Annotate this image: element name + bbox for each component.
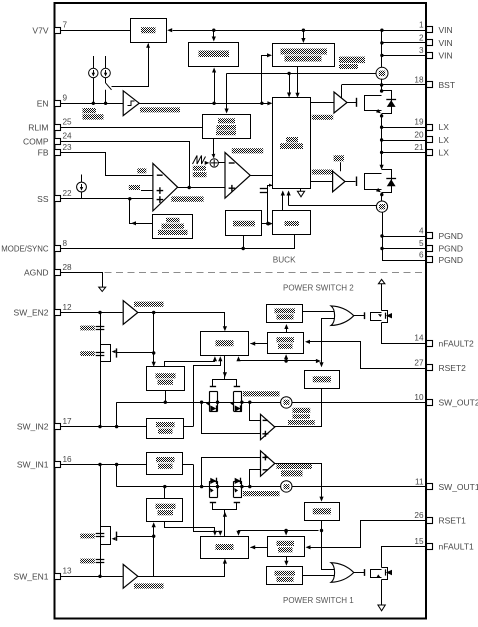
- gate drive branch 1: [213, 503, 237, 510]
- wire comparator minus tap 1: [250, 470, 261, 487]
- svg-text:5: 5: [419, 239, 424, 248]
- svg-text:PGND: PGND: [439, 244, 464, 254]
- op-amp PWM comparator: [225, 153, 250, 199]
- fault FET gate bar: [364, 312, 366, 319]
- ground AGND symbol: [99, 287, 106, 291]
- wire VIN pin2: [382, 42, 426, 44]
- pin 3 VIN (right): [427, 53, 433, 59]
- HS FET body diode: [386, 99, 396, 101]
- transistor fault pull FET body: [382, 568, 388, 580]
- wire PGND pin5: [382, 248, 426, 250]
- svg-text:SW_OUT2: SW_OUT2: [439, 397, 478, 407]
- node VIN rail / VIN bus: [380, 29, 383, 32]
- label 0.8V reference text: [129, 185, 140, 190]
- block box 1e fault comparator: [267, 567, 303, 585]
- block box 2f sense latch: [305, 371, 340, 389]
- node SW_EN1 clamp tap: [98, 575, 101, 578]
- label sense text below rail 1: [243, 491, 280, 496]
- svg-text:AGND: AGND: [24, 267, 49, 277]
- wire rail leg to SW_IN2: [116, 402, 118, 426]
- op-amp HS gate driver: [334, 92, 347, 113]
- node clamp gate junction 1: [152, 535, 155, 538]
- svg-text:2: 2: [419, 33, 424, 42]
- block box 2g input filter: [147, 419, 184, 439]
- svg-text:12: 12: [63, 303, 73, 312]
- node LX connection: [380, 114, 383, 117]
- svg-text:RSET2: RSET2: [439, 363, 467, 373]
- wire reference to error amp + input: [141, 190, 153, 192]
- transistor fault pull FET body: [382, 311, 388, 323]
- svg-text:19: 19: [414, 118, 424, 127]
- label EN comparator output text: [140, 107, 180, 112]
- op-amp PS2 comparator: [261, 414, 275, 439]
- wire V7V pin to LDO: [61, 30, 130, 32]
- op-amp error amplifier: [153, 163, 178, 211]
- wire BST drop to HS driver: [341, 85, 343, 98]
- wire box1e to OR input 1: [303, 575, 334, 577]
- node EN to box3: [260, 102, 263, 105]
- block box B (mode detect): [226, 211, 262, 236]
- block box 1b current limit ref: [268, 537, 305, 557]
- block box 1f sense latch: [305, 503, 340, 521]
- wire LX pin19: [382, 127, 427, 129]
- svg-text:RLIM: RLIM: [28, 122, 48, 132]
- wire common bus 3' (fault feed 1): [239, 531, 319, 534]
- svg-text:POWER SWITCH 1: POWER SWITCH 1: [283, 596, 354, 605]
- current sense circle 1: [281, 481, 292, 492]
- wire MODE/SYNC to boxC: [61, 235, 295, 249]
- ground at logic block: [300, 188, 302, 191]
- wire SS source to SS line: [81, 192, 83, 199]
- pin 13 SW_EN1 (left): [55, 574, 61, 580]
- comp cap ticks: [260, 188, 267, 190]
- wire LX pin20: [382, 140, 427, 142]
- svg-text:16: 16: [63, 455, 73, 464]
- wire level shift output to box1a 1: [165, 522, 215, 534]
- label clamp text lower: [80, 351, 95, 356]
- wire OR output to gate: [354, 315, 365, 317]
- svg-text:PGND: PGND: [439, 231, 464, 241]
- pin 28 AGND (left): [55, 270, 61, 276]
- wire PGND pin4: [382, 236, 426, 238]
- node supply to logic: [287, 72, 290, 75]
- svg-text:nFAULT1: nFAULT1: [439, 542, 475, 552]
- wire logic to comp cap node: [268, 186, 273, 224]
- wire RLIM to oscillator: [61, 127, 202, 129]
- transistor output FET 2A: [209, 391, 211, 411]
- svg-text:SW_IN1: SW_IN1: [17, 460, 49, 470]
- pin 17 SW_IN2 (left): [55, 424, 61, 430]
- summing node circle: [210, 159, 218, 167]
- wire COMP to error-amp output: [61, 142, 190, 188]
- FET gate bars 1: [210, 502, 216, 504]
- svg-text:LX: LX: [439, 135, 450, 145]
- svg-text:4: 4: [419, 226, 424, 235]
- wire EN comparator output: [139, 103, 269, 105]
- LS FET gate bar: [356, 177, 358, 187]
- wire box2b to box2e: [286, 327, 288, 333]
- wire switch to EN line: [105, 90, 107, 104]
- label clamp1 text lower: [80, 559, 95, 564]
- wire EN up into box2: [214, 72, 216, 104]
- wire box2e to OR input: [303, 311, 334, 313]
- wire box1c to rail 1: [164, 487, 166, 498]
- wire nFAULT1: [382, 547, 427, 568]
- node SW_EN2 clamp tap: [98, 311, 101, 314]
- wire buffer1 output to control: [138, 562, 225, 577]
- wire supply down into logic block: [289, 73, 291, 93]
- svg-text:1: 1: [419, 21, 424, 30]
- svg-text:POWER SWITCH 2: POWER SWITCH 2: [283, 284, 354, 293]
- svg-text:17: 17: [63, 417, 73, 426]
- svg-text:SS: SS: [37, 194, 49, 204]
- wire SW_IN1 down to box1a: [194, 465, 221, 534]
- label PWM comparator text: [232, 148, 263, 153]
- block box 2c level shift: [147, 367, 185, 391]
- wire SW_OUT2 rail: [117, 402, 282, 404]
- SS current source stub: [81, 175, 83, 183]
- wire VIN pin3: [382, 55, 426, 57]
- wire PGND pin6: [382, 260, 426, 262]
- node SW_IN2 taps: [98, 425, 101, 428]
- block LDO regulator: [131, 19, 167, 43]
- wire deadtime stub: [340, 162, 342, 171]
- pin 11 SW_OUT1 (right): [427, 484, 433, 490]
- label sense text above rail: [243, 391, 280, 396]
- wire circle to HS FET drain: [381, 79, 383, 91]
- OR gate 1: [331, 563, 354, 583]
- wire clamp gate: [117, 352, 154, 354]
- svg-text:FB: FB: [38, 148, 49, 158]
- label SW_EN2 buffer text: [134, 302, 164, 307]
- node EN to box2: [212, 102, 215, 105]
- wire comparator plus tap 1: [202, 458, 261, 487]
- svg-text:27: 27: [414, 359, 424, 368]
- block box 1c level shift: [147, 499, 183, 522]
- svg-text:11: 11: [415, 477, 424, 486]
- node SS / softstart tap: [128, 197, 131, 200]
- svg-text:23: 23: [63, 143, 73, 152]
- pin 20 LX (right): [427, 137, 433, 143]
- transistor output FET 1A: [209, 481, 211, 497]
- svg-text:26: 26: [414, 511, 424, 520]
- pin 15 nFAULT1 (right): [427, 544, 433, 550]
- wire BST to pin 18: [342, 84, 427, 86]
- svg-text:nFAULT2: nFAULT2: [439, 338, 475, 348]
- wire switch to LDO output: [112, 44, 149, 87]
- svg-text:RSET1: RSET1: [439, 516, 467, 526]
- wire boxC up into logic: [282, 192, 284, 211]
- wire FB to error amp inverting input: [61, 153, 153, 176]
- wire rail leg to SW_IN1: [116, 465, 118, 487]
- svg-text:28: 28: [63, 263, 73, 272]
- op-amp LS gate driver: [333, 171, 345, 192]
- clamp ticks upper: [96, 533, 105, 535]
- pin 7 V7V (left): [55, 28, 61, 34]
- LS FET body diode: [386, 178, 396, 180]
- OR gate 2: [331, 306, 354, 326]
- svg-text:LX: LX: [439, 122, 450, 132]
- ground nFAULT1 symbol: [378, 605, 385, 611]
- svg-text:VIN: VIN: [439, 25, 453, 35]
- wire SW_EN1 clamp leg: [100, 465, 102, 577]
- pin 6 PGND (right): [427, 257, 433, 263]
- pin 24 COMP (left): [55, 139, 61, 145]
- wire comparator minus tap: [250, 403, 261, 421]
- svg-text:3: 3: [419, 46, 424, 55]
- svg-text:LX: LX: [439, 147, 450, 157]
- label comp text rows 1: [277, 463, 313, 469]
- svg-text:22: 22: [63, 189, 73, 198]
- wire comparator plus tap: [202, 403, 261, 434]
- pin 9 EN (left): [55, 101, 61, 107]
- pin 25 RLIM (left): [55, 125, 61, 131]
- svg-text:VIN: VIN: [439, 38, 453, 48]
- svg-text:PGND: PGND: [439, 255, 464, 265]
- wire nFAULT2: [382, 325, 427, 344]
- wire SW_IN2 up to box2a: [194, 359, 221, 427]
- wire up to level shift box 1: [153, 525, 155, 577]
- transistor nFAULT1 pull-down FET: [381, 567, 383, 569]
- wire box2b to box2a: [250, 343, 267, 345]
- transistor output FET 1B: [233, 481, 235, 497]
- clamp ticks lower: [96, 352, 105, 354]
- wire level shift output to box2a: [165, 359, 215, 367]
- wire summer to comparator - input: [218, 162, 225, 164]
- wire VIN bus down to pins 2,3 and BST source: [381, 30, 383, 68]
- transistor LS power FET: [380, 165, 384, 170]
- svg-text:15: 15: [414, 537, 424, 546]
- wire I1 to EN line: [93, 78, 95, 104]
- wire SW_IN2: [61, 426, 147, 428]
- wire LX bus: [381, 114, 383, 167]
- svg-text:BUCK: BUCK: [273, 256, 296, 265]
- svg-text:25: 25: [63, 118, 73, 127]
- block oscillator: [203, 115, 251, 139]
- label clamp text upper: [80, 326, 95, 331]
- svg-text:SW_EN2: SW_EN2: [14, 308, 49, 318]
- wire VIN rail to LDO input: [173, 30, 427, 32]
- wire LS source to sense circle: [381, 193, 383, 201]
- current sense circle 2: [281, 397, 292, 408]
- label deadtime text: [334, 155, 344, 161]
- wire latch drop to OR 1: [322, 521, 335, 570]
- wire error amp output to PWM comparator: [178, 187, 225, 189]
- wire sense to PGND bus: [382, 212, 384, 260]
- label LS driver text: [312, 170, 333, 175]
- wire LS driver to gate: [345, 181, 356, 183]
- wire down to level shift box: [153, 313, 155, 364]
- node bus3 to box2b: [284, 359, 287, 362]
- wire box1b to box1e: [286, 557, 288, 563]
- wire clamp gate: [117, 536, 154, 538]
- block buck control logic: [273, 98, 311, 189]
- svg-text:20: 20: [414, 130, 424, 139]
- wire bus3 up to box2b: [286, 357, 288, 361]
- svg-text:MODE/SYNC: MODE/SYNC: [1, 245, 49, 254]
- LS FET source arrow: [376, 188, 381, 192]
- wire I2 to switch: [105, 78, 107, 84]
- pin 12 SW_EN2 (left): [55, 310, 61, 316]
- block box 2a gate control: [201, 332, 249, 356]
- wire PS2 comparator output: [275, 389, 322, 427]
- current source I1 stub: [93, 56, 95, 69]
- wire box1b to box1a: [250, 547, 267, 549]
- svg-text:13: 13: [63, 567, 73, 576]
- wire gate drive up from box1a: [224, 509, 226, 536]
- label charge-pump text: [339, 57, 365, 64]
- block box 1g input filter: [147, 453, 183, 475]
- SS current source circle: [77, 182, 87, 192]
- node VIN rail / box3 tap: [302, 29, 305, 32]
- wire SS pin to error amp: [61, 198, 153, 200]
- label SW_EN1 buffer text: [134, 583, 164, 588]
- svg-text:9: 9: [63, 94, 68, 103]
- wire box3 to logic: [297, 67, 299, 94]
- wire logic to LS driver: [311, 181, 333, 183]
- pin 14 nFAULT2 (right): [427, 341, 433, 347]
- wire softstart box to SS line: [130, 199, 153, 224]
- wire OR output to gate: [354, 572, 365, 574]
- svg-text:7: 7: [63, 21, 68, 30]
- wire rail down to box2: [213, 30, 215, 37]
- wire RSET2: [308, 342, 427, 369]
- pin 8 MODE/SYNC (left): [55, 246, 61, 252]
- label HS driver text: [312, 115, 333, 120]
- pin 5 PGND (right): [427, 246, 433, 252]
- wire supply down into oscillator: [226, 73, 228, 109]
- BST current source circle: [376, 67, 388, 79]
- pin 21 LX (right): [427, 150, 433, 156]
- current source I1 circle: [89, 68, 98, 77]
- label ramp text: [193, 166, 206, 171]
- dashed analog/power separator: [105, 272, 425, 274]
- label clamp1 text upper: [80, 534, 95, 539]
- pin 18 BST (right): [427, 82, 433, 88]
- wire LX pin21: [382, 152, 427, 154]
- node FET drains on rail 1: [216, 485, 219, 488]
- block box2 (reference/bias): [189, 43, 239, 67]
- wire SW_IN1: [61, 464, 147, 466]
- node COMP on EA output: [188, 186, 191, 189]
- pin 4 PGND (right): [427, 233, 433, 239]
- pin 22 SS (left): [55, 196, 61, 202]
- block box A softstart: [153, 215, 193, 239]
- pin 19 LX (right): [427, 125, 433, 131]
- transistor nFAULT2 pull-up FET: [381, 310, 383, 312]
- gate drive branch: [213, 380, 237, 387]
- pin 2 VIN (right): [427, 40, 433, 46]
- wire SW_EN2 to buffer: [61, 312, 123, 314]
- wire SW_OUT1 rail: [117, 486, 282, 488]
- wire SW_EN1 to buffer: [61, 576, 123, 578]
- wire EN up into box3: [262, 56, 269, 104]
- wire HS driver to gate: [347, 102, 356, 104]
- pin 23 FB (left): [55, 150, 61, 156]
- fault FET gate bar: [364, 569, 366, 576]
- wire logic to HS driver: [311, 102, 335, 104]
- current source I2 stub: [105, 56, 107, 69]
- wire EN pin to buffer: [61, 103, 124, 105]
- block box 2b current limit ref: [268, 333, 304, 354]
- wire AGND: [61, 273, 103, 288]
- block box3 (UVLO): [273, 44, 335, 67]
- wire PWM comparator output to logic: [250, 175, 273, 177]
- pin 10 SW_OUT2 (right): [427, 400, 433, 406]
- svg-text:SW_OUT1: SW_OUT1: [439, 482, 478, 492]
- pin 27 RSET2 (right): [427, 365, 433, 371]
- label EN threshold text: [83, 108, 97, 113]
- wire buffer output to control: [138, 313, 225, 328]
- wire bus3' down to box1b: [286, 531, 288, 534]
- sawtooth ramp glyph: [193, 156, 206, 165]
- HS FET gate bar: [356, 98, 358, 107]
- node clamp gate junction: [152, 351, 155, 354]
- transistor clamp FET: [101, 345, 111, 362]
- wire rail down to box3: [303, 30, 305, 39]
- svg-text:6: 6: [419, 251, 424, 260]
- svg-text:VIN: VIN: [439, 50, 453, 60]
- IC body outline: [55, 3, 427, 619]
- transistor clamp FET: [101, 527, 111, 545]
- switch blade: [106, 83, 112, 90]
- wire boxB bottom: [243, 236, 245, 249]
- svg-text:SW_IN2: SW_IN2: [17, 422, 49, 432]
- node FET drains on rail: [216, 401, 219, 404]
- svg-text:10: 10: [414, 393, 424, 402]
- svg-text:21: 21: [414, 143, 424, 152]
- power arrow VIN symbol: [378, 279, 385, 283]
- pin 1 VIN (right): [427, 27, 433, 33]
- svg-text:EN: EN: [37, 98, 49, 108]
- wire ramp into summer: [205, 161, 210, 165]
- block box 1a gate control: [201, 537, 249, 559]
- wire current sense from circle to logic: [289, 205, 377, 207]
- clamp ticks lower: [96, 559, 105, 561]
- node gate logic tap: [152, 311, 155, 314]
- op-amp SW_EN1 buffer: [123, 564, 138, 588]
- clamp ticks upper: [96, 326, 105, 328]
- pin 16 SW_IN1 (left): [55, 462, 61, 468]
- HS FET source arrow: [376, 109, 381, 113]
- node SW_IN1 taps: [98, 463, 101, 466]
- op-amp EN comparator (schmitt): [123, 91, 139, 116]
- svg-text:BST: BST: [439, 80, 456, 90]
- wire box2c to rail: [165, 391, 167, 403]
- svg-text:18: 18: [414, 75, 424, 84]
- wire RSET1: [309, 521, 427, 548]
- label sense text right rows: [293, 408, 311, 413]
- FET gate bars: [210, 386, 216, 388]
- transistor output FET 2B: [233, 391, 235, 411]
- svg-text:SW_EN1: SW_EN1: [14, 571, 49, 581]
- wire PS1 comparator output: [275, 464, 322, 499]
- current source I2 circle: [101, 68, 110, 77]
- svg-text:24: 24: [63, 132, 73, 141]
- svg-text:8: 8: [63, 239, 68, 248]
- wire SW_EN2 clamp leg: [100, 313, 102, 427]
- label FB threshold text: [137, 168, 146, 173]
- svg-text:14: 14: [414, 334, 424, 343]
- node LS source: [380, 193, 383, 196]
- pin 26 RSET1 (right): [427, 518, 433, 524]
- wire oscillator to summer: [213, 139, 215, 158]
- wire logic sense input: [288, 192, 290, 206]
- node VIN rail / box2 tap: [212, 29, 215, 32]
- svg-text:COMP: COMP: [23, 136, 49, 146]
- wire osc/logic supply from circle: [227, 73, 376, 75]
- wire gate drive down: [224, 356, 226, 380]
